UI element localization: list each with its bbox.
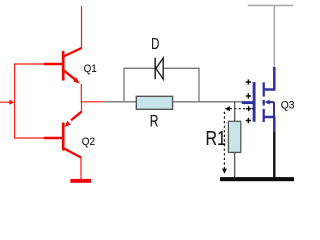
MOSFET Q3 body-source tie: [273, 102, 275, 117]
MOSFET Q3 gate lead (blue): [242, 101, 253, 104]
MOSFET Q3 drain lead (blue): [273, 67, 276, 91]
wire: drain wire from rail (gray): [273, 6, 275, 69]
wire: Q1 base wire: [14, 63, 48, 65]
wire: Q2 base wire: [14, 137, 48, 139]
gate charge plus sign 4: [246, 118, 251, 123]
input arrowhead: [9, 100, 14, 105]
transistor Q1 emitter diagonal: [64, 70, 76, 80]
diode D triangle: [156, 58, 163, 79]
gate charge plus sign 3: [246, 106, 251, 111]
discharge path down arrowhead: [222, 169, 227, 174]
wire: output to gate (gray): [103, 101, 243, 103]
svg-text:Q2: Q2: [82, 135, 95, 148]
transistor Q2 emitter arrowhead (points into bar): [64, 121, 71, 127]
transistor Q2 (PNP) base lead: [44, 137, 63, 140]
resistor R1 body: [228, 121, 240, 152]
MOSFET Q3 channel bottom segment: [263, 109, 265, 122]
svg-text:D: D: [151, 34, 159, 52]
MOSFET Q3 gate bar: [253, 82, 256, 122]
resistor R body: [136, 96, 172, 109]
discharge path left arrowhead: [225, 106, 230, 111]
diode D cathode bar: [154, 58, 156, 79]
transistor Q2 collector diagonal (bottom): [64, 148, 82, 157]
ground (black) bottom right: [220, 177, 294, 181]
power rail (top right, gray): [248, 5, 293, 7]
wire: base rail vertical: [14, 64, 16, 139]
wire: input lead to driver bases: [0, 101, 10, 103]
wire: R1 bottom lead: [234, 152, 236, 177]
wire: driver output (red segment): [81, 101, 104, 103]
MOSFET Q3 channel middle segment: [263, 100, 265, 106]
MOSFET Q3 source stub: [263, 116, 276, 119]
gate charge plus sign 2: [246, 93, 251, 98]
transistor Q1 bar: [62, 51, 65, 81]
transistor Q2 bar: [62, 123, 65, 151]
transistor Q1 emitter arrowhead: [73, 78, 80, 84]
svg-text:R1: R1: [206, 128, 226, 150]
wire: D branch right vertical: [198, 68, 200, 102]
transistor Q1 (NPN) base lead: [44, 63, 63, 66]
MOSFET Q3 channel top segment: [263, 82, 265, 96]
wire: D branch left vertical: [123, 68, 125, 102]
discharge path dashed horizontal: [230, 108, 254, 110]
MOSFET Q3 source lead (blue): [273, 117, 276, 133]
transistor Q2 emitter diagonal (top): [71, 112, 82, 121]
wire: output node down to Q2 emitter: [81, 101, 83, 112]
discharge path dashed vertical: [223, 112, 225, 169]
wire: R1 top lead: [234, 102, 236, 122]
wire: D branch top horizontal: [123, 67, 199, 69]
ground (red) under Q2: [70, 179, 91, 183]
transistor Q1 collector diagonal: [64, 48, 82, 57]
wire: Q1 collector up to top: [81, 6, 83, 49]
MOSFET Q3 body arrow stub: [268, 101, 274, 103]
MOSFET Q3 body arrowhead: [265, 100, 270, 105]
wire: Q2 collector down to ground: [80, 157, 82, 180]
MOSFET Q3 drain stub: [263, 88, 276, 91]
wire: Q3 source to ground (black): [273, 132, 275, 178]
wire: Q1 emitter down to output node: [80, 84, 82, 102]
svg-text:Q3: Q3: [281, 99, 295, 112]
gate charge plus sign 1: [246, 79, 251, 84]
svg-text:Q1: Q1: [84, 63, 97, 76]
svg-text:R: R: [150, 113, 159, 131]
